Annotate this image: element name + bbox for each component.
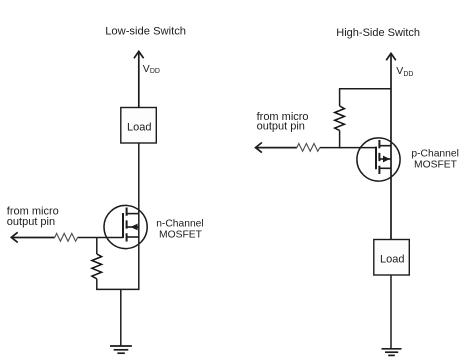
wire: gate node down to R2 (left) <box>96 238 98 255</box>
wire: R4 to gate node (right) <box>320 147 340 149</box>
wire: MOSFET source down (left) <box>138 237 140 289</box>
load L2 (right) <box>374 240 410 276</box>
svg-text:High-Side Switch: High-Side Switch <box>336 27 420 39</box>
ground (right) <box>382 349 402 356</box>
arrow to micro pin (left) <box>11 232 54 242</box>
wire: ground stem (left) <box>120 289 122 346</box>
svg-text:output pin: output pin <box>7 216 55 228</box>
resistor R2 pull-down (left) <box>92 254 102 279</box>
svg-text:n-Channel: n-Channel <box>156 219 204 230</box>
n-channel MOSFET Q1 <box>104 205 147 248</box>
svg-text:Low-side Switch: Low-side Switch <box>105 25 186 37</box>
load L1 (left) <box>121 108 157 144</box>
wire: gate lead (left) <box>97 237 123 239</box>
power VDD supply arrow (left) <box>134 51 144 107</box>
svg-text:VDD: VDD <box>396 65 413 78</box>
resistor R1 series gate (left) <box>55 233 78 241</box>
ground (left) <box>110 346 132 353</box>
wire: R3 to gate node (right) <box>339 131 341 149</box>
arrow to micro pin (right) <box>256 143 297 153</box>
resistor R3 pull-up (right) <box>335 106 345 131</box>
svg-text:output pin: output pin <box>257 121 305 133</box>
svg-text:MOSFET: MOSFET <box>159 229 203 240</box>
wire: VDD branch to R3 (right) <box>340 89 391 106</box>
svg-text:MOSFET: MOSFET <box>414 159 458 170</box>
wire: Load to MOSFET drain (left) <box>138 143 140 214</box>
wire: R1 to gate node (left) <box>78 237 97 239</box>
svg-text:Load: Load <box>380 253 404 265</box>
resistor R4 series gate (right) <box>297 144 320 152</box>
wire: R2 to bottom node (left) <box>96 279 98 290</box>
wire: bottom horizontal (left) <box>96 288 139 290</box>
p-channel MOSFET Q2 <box>357 138 400 181</box>
wire: Load to ground (right) <box>390 275 392 349</box>
power VDD supply arrow (right) <box>386 53 396 239</box>
svg-text:VDD: VDD <box>143 63 160 75</box>
svg-text:Load: Load <box>127 121 151 133</box>
wire: gate lead (right) <box>340 147 376 149</box>
svg-text:p-Channel: p-Channel <box>411 149 459 160</box>
